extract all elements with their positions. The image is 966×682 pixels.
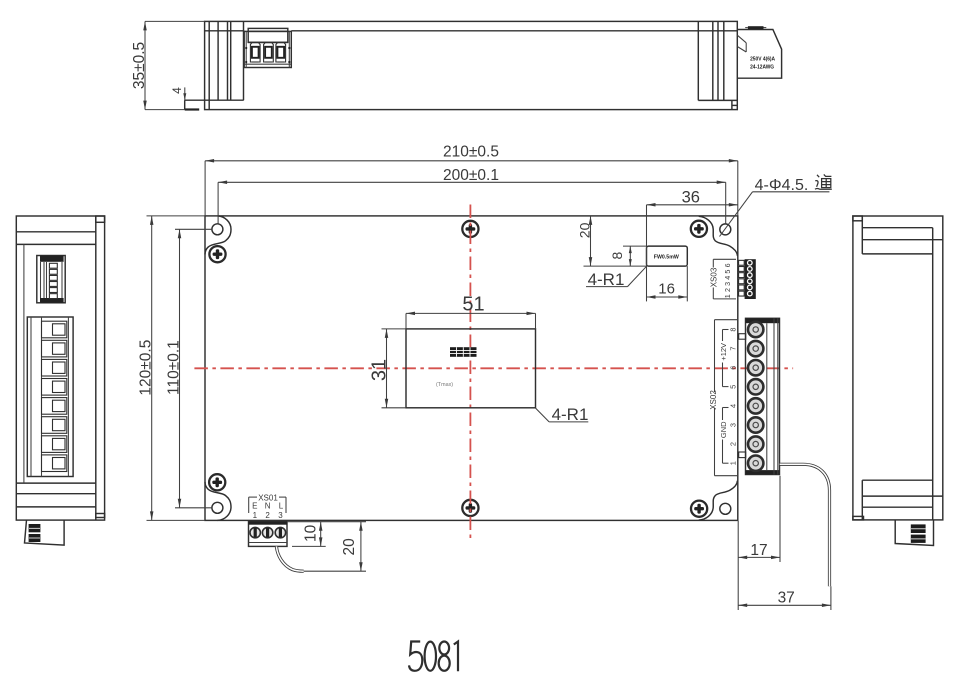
right view AC inlet connector xyxy=(895,520,933,546)
svg-text:8: 8 xyxy=(729,327,738,331)
corner cutout curve top-right xyxy=(699,216,738,256)
screw top-left xyxy=(209,246,225,262)
left view XS02 terminal face xyxy=(27,317,73,477)
left view XS03 connector face xyxy=(37,256,65,303)
svg-text:3: 3 xyxy=(729,423,738,427)
svg-text:3: 3 xyxy=(278,511,283,520)
mounting hole top-left xyxy=(212,224,223,235)
svg-text:4: 4 xyxy=(170,87,184,94)
svg-text:10: 10 xyxy=(303,524,320,542)
svg-text:7: 7 xyxy=(729,347,738,351)
svg-text:1: 1 xyxy=(253,511,258,520)
svg-text:N: N xyxy=(265,502,271,511)
dimension 210±0.5 xyxy=(205,143,738,216)
dimension 31 (label height) xyxy=(369,329,406,408)
svg-text:35±0.5: 35±0.5 xyxy=(131,42,148,89)
top view right flange ribs xyxy=(698,21,737,100)
svg-text:+12V: +12V xyxy=(719,343,728,361)
dimension 36 xyxy=(647,189,738,302)
svg-text:GND: GND xyxy=(719,421,728,438)
screw top-center xyxy=(462,221,478,237)
svg-text:E: E xyxy=(252,502,257,511)
leader 4-R1 (label corners) xyxy=(586,266,647,289)
mounting hole bottom-right xyxy=(720,503,731,514)
dimension 10 (XS01 depth) xyxy=(287,522,366,547)
svg-text:(Tmax): (Tmax) xyxy=(436,382,453,388)
corner cutout curve bottom-right xyxy=(699,481,738,520)
svg-text:6: 6 xyxy=(723,263,732,267)
dimension 17 (XS02 depth) xyxy=(738,476,780,610)
svg-text:31: 31 xyxy=(369,359,391,381)
GND bracket pins 1-4 xyxy=(722,408,724,421)
svg-text:5: 5 xyxy=(729,385,738,389)
hand-drawn 通 glyph xyxy=(815,174,832,189)
svg-text:200±0.1: 200±0.1 xyxy=(443,167,499,184)
top view body outline xyxy=(205,21,738,109)
svg-text:110±0.1: 110±0.1 xyxy=(165,340,182,395)
svg-text:20: 20 xyxy=(341,538,358,556)
red vertical center line xyxy=(469,205,471,543)
svg-text:5: 5 xyxy=(723,270,732,274)
svg-text:4-R1: 4-R1 xyxy=(552,405,589,424)
screw top-right xyxy=(691,221,707,237)
connector XS03 (6p) on right edge xyxy=(739,259,756,299)
dimension 51 (label width) xyxy=(406,293,536,329)
dimension 120±0.5 xyxy=(138,216,205,521)
leader 4-Φ4.5 through-hole note xyxy=(720,174,832,236)
terminal block XS02 (8p) on right edge xyxy=(739,318,780,474)
svg-text:4-Φ4.5.: 4-Φ4.5. xyxy=(755,177,809,194)
svg-text:1: 1 xyxy=(729,461,738,465)
svg-text:8: 8 xyxy=(609,251,625,259)
svg-text:36: 36 xyxy=(682,189,700,207)
dimension 20 (label offset) xyxy=(577,216,647,266)
input wire from XS01 xyxy=(276,546,303,571)
dimension 20 (wire clearance bottom) xyxy=(304,522,366,572)
output wire from XS02 pin 1 xyxy=(780,464,830,586)
dimension 110±0.1 xyxy=(165,229,211,508)
+12V bracket pins 5-8 xyxy=(722,330,724,342)
screw bottom-left xyxy=(209,474,225,490)
small label 16x8 top right xyxy=(647,246,688,266)
svg-text:210±0.5: 210±0.5 xyxy=(443,143,499,160)
red horizontal center line xyxy=(194,367,793,369)
corner cutout curve top-left xyxy=(205,216,231,255)
left view AC inlet connector xyxy=(25,520,65,545)
central label rectangle 51x31 xyxy=(406,329,536,408)
dimension 4 (foot step) xyxy=(170,87,186,100)
screw bottom-right xyxy=(691,501,707,517)
svg-text:120±0.5: 120±0.5 xyxy=(138,340,155,396)
svg-text:L: L xyxy=(279,502,284,511)
screw bottom-center xyxy=(462,500,478,516)
terminal block XS01 seen from top xyxy=(244,28,291,67)
svg-text:2: 2 xyxy=(729,442,738,446)
svg-text:16: 16 xyxy=(658,281,675,298)
svg-text:4: 4 xyxy=(729,404,738,408)
svg-text:4: 4 xyxy=(723,276,732,280)
right view body outline xyxy=(853,216,943,520)
output connector XS02 seen from top xyxy=(737,26,781,78)
dimension 8 (label height) xyxy=(609,246,647,266)
latch tabs xyxy=(739,334,746,340)
top view left flange ribs xyxy=(185,21,244,100)
terminal block XS01 (3p) on bottom edge xyxy=(249,522,288,547)
svg-text:17: 17 xyxy=(750,542,767,559)
XS02 reference bracket, pin numbers and net labels xyxy=(709,320,738,476)
svg-text:37: 37 xyxy=(778,589,795,606)
svg-text:3: 3 xyxy=(723,282,732,286)
part number 5081 (stroke digits) xyxy=(409,642,458,672)
dimension 16 (label width) xyxy=(647,266,688,301)
svg-text:FW0.5mW: FW0.5mW xyxy=(654,254,680,260)
main body outline 210x120 xyxy=(205,216,738,521)
wire clamp bar xyxy=(748,26,764,29)
svg-text:2: 2 xyxy=(265,511,270,520)
leader 4-R1 (central label corners) xyxy=(535,405,588,424)
corner cutout curve bottom-left xyxy=(205,482,231,521)
mounting hole top-right xyxy=(720,224,731,235)
top view left mounting foot xyxy=(185,100,210,110)
dimension 37 (wire clearance right) xyxy=(738,586,831,610)
svg-text:250V 4(6)A: 250V 4(6)A xyxy=(750,56,776,62)
top view right mounting foot xyxy=(732,100,737,109)
label text blob xyxy=(450,347,477,357)
svg-text:6: 6 xyxy=(729,366,738,370)
svg-text:XS02: XS02 xyxy=(709,390,718,410)
XS01 reference bracket and pin labels xyxy=(249,493,286,519)
svg-text:20: 20 xyxy=(577,222,593,238)
svg-text:1: 1 xyxy=(723,294,732,298)
dimension 200±0.1 xyxy=(218,167,726,224)
svg-text:2: 2 xyxy=(723,288,732,292)
svg-text:24-12AWG: 24-12AWG xyxy=(750,65,774,71)
dimension 35±0.5 (top view height) xyxy=(131,21,205,109)
latch xyxy=(737,35,746,43)
left view body outline xyxy=(16,216,104,520)
svg-text:XS03: XS03 xyxy=(710,267,719,287)
mounting hole bottom-left xyxy=(212,502,223,513)
svg-text:51: 51 xyxy=(462,293,484,315)
XS03 reference bracket and pin numbers xyxy=(710,259,736,299)
